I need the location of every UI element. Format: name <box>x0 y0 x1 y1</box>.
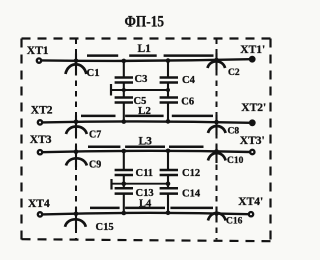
branch wire section1 right (through C4,C6) <box>167 60 169 123</box>
terminal XT4 <box>38 212 42 216</box>
capacitor C2 (line to shield) <box>208 53 226 70</box>
wire XT3 to XT3' (row 3) <box>42 151 251 152</box>
enclosure shield dashed border <box>22 39 271 242</box>
capacitor C12 <box>160 170 178 175</box>
junction node rail2 right <box>166 181 171 186</box>
junction node row2 left shield stem <box>74 120 79 125</box>
svg-text:XT4: XT4 <box>28 198 50 210</box>
svg-text:C13: C13 <box>136 188 154 199</box>
capacitor C16 (line to shield) <box>208 207 226 223</box>
junction node row2 left branch <box>122 119 127 124</box>
junction node row3 left shield stem <box>74 149 79 154</box>
junction node rail2 left <box>122 181 127 186</box>
branch wire section2 right (through C12,C14) <box>167 150 169 214</box>
svg-text:L1: L1 <box>138 43 152 55</box>
svg-text:C10: C10 <box>227 156 244 166</box>
terminal XT4' <box>249 212 253 216</box>
junction node row1 right shield stem <box>214 58 219 63</box>
junction node row4 right branch <box>166 211 171 216</box>
chassis tap section2 <box>110 179 112 190</box>
capacitor C5 <box>115 98 133 103</box>
svg-text:L4: L4 <box>139 199 152 210</box>
inductor L2 <box>81 115 213 118</box>
svg-text:C12: C12 <box>182 168 200 179</box>
terminal XT1' <box>250 57 255 62</box>
right shield partition (dashed) <box>216 39 218 240</box>
capacitor C10 (line to shield) <box>208 145 226 163</box>
junction node row1 left shield stem <box>74 59 79 64</box>
junction node row1 left branch <box>122 59 127 64</box>
junction node row4 left shield stem <box>74 212 79 217</box>
capacitor C9 (line to shield) <box>66 146 87 168</box>
svg-text:XT4': XT4' <box>238 196 263 208</box>
left shield partition (dashed) <box>75 39 77 240</box>
svg-text:XT1: XT1 <box>27 45 49 57</box>
svg-text:C15: C15 <box>96 222 114 233</box>
inductor L1 <box>87 54 214 57</box>
capacitor C11 <box>115 170 133 175</box>
capacitor C7 (line to shield) <box>66 116 87 137</box>
capacitor C15 (line to shield) <box>65 208 86 230</box>
junction node row4 right shield stem <box>214 211 219 216</box>
svg-text:XT3': XT3' <box>240 135 265 147</box>
svg-text:XT2: XT2 <box>31 104 53 116</box>
svg-text:ФП-15: ФП-15 <box>125 12 165 30</box>
branch wire section1 left (through C3,C5) <box>123 60 125 123</box>
junction node row1 right branch <box>166 58 171 63</box>
junction node row3 right branch <box>166 149 171 154</box>
svg-text:XT3: XT3 <box>30 134 52 146</box>
svg-text:C1: C1 <box>87 67 100 79</box>
svg-text:C14: C14 <box>182 189 201 200</box>
inductor L4 <box>90 207 213 210</box>
capacitor C13 <box>115 188 133 193</box>
inductor L3 <box>88 145 204 148</box>
junction node rail1 left <box>122 88 126 92</box>
svg-text:C8: C8 <box>228 127 240 137</box>
rail wire section1 midpoint <box>112 89 169 91</box>
capacitor C3 <box>115 78 133 83</box>
terminal XT2 <box>38 120 42 124</box>
junction node row3 left branch <box>122 149 127 154</box>
terminal XT3 <box>38 150 42 154</box>
svg-text:C11: C11 <box>136 168 154 179</box>
terminal XT3' <box>250 150 254 154</box>
svg-text:XT1': XT1' <box>240 44 265 56</box>
capacitor C14 <box>160 188 178 193</box>
capacitor C4 <box>160 78 178 83</box>
junction node rail1 right <box>166 88 170 92</box>
terminal XT1 <box>37 58 41 62</box>
wire XT2 to XT2' (row 2) <box>42 121 251 122</box>
capacitor C8 (line to shield) <box>208 115 226 135</box>
chassis tap section1 <box>110 84 112 96</box>
wire XT1 to XT1' (row 1) <box>42 59 251 61</box>
junction node row2 right shield stem <box>214 120 219 125</box>
svg-text:XT2': XT2' <box>241 102 266 114</box>
junction node row4 left branch <box>122 211 127 216</box>
svg-text:C7: C7 <box>89 130 101 141</box>
svg-text:C5: C5 <box>134 96 147 107</box>
branch wire section2 left (through C11,C13) <box>123 150 125 214</box>
wire XT4 to XT4' (row 4) <box>42 213 249 215</box>
svg-text:C16: C16 <box>226 217 243 227</box>
svg-text:C9: C9 <box>89 160 101 171</box>
svg-text:C3: C3 <box>135 74 148 85</box>
capacitor C6 <box>160 98 178 103</box>
svg-text:C2: C2 <box>228 68 240 78</box>
terminal XT2' <box>250 120 255 125</box>
junction node row3 right shield stem <box>214 149 219 154</box>
svg-text:C4: C4 <box>182 75 196 86</box>
capacitor C1 (line to shield) <box>66 54 87 76</box>
svg-text:C6: C6 <box>181 97 194 108</box>
junction node row2 right branch <box>166 119 171 124</box>
svg-text:L3: L3 <box>139 135 153 147</box>
rail wire section2 midpoint <box>112 183 169 185</box>
